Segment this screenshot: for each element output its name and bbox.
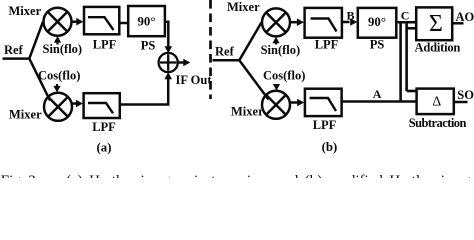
arrow Sin stem (a) <box>56 42 58 45</box>
svg-text:Cos(flo): Cos(flo) <box>38 68 80 82</box>
wire F3 to 90 box node B <box>343 21 350 24</box>
wire node A from F4 to delta <box>342 100 416 103</box>
arrowhead into summer top (a) <box>165 46 173 53</box>
wire Ref to bottom mixer (a) <box>29 59 50 101</box>
wire M4 to LPF (b) <box>291 101 298 104</box>
svg-text:A: A <box>373 87 382 101</box>
arrowhead M4 to LPF (b) <box>297 99 304 107</box>
svg-text:LPF: LPF <box>313 118 337 132</box>
arrow Cos stem (b) <box>275 84 277 87</box>
arrowhead into 90 box (b) <box>350 18 357 26</box>
svg-text:90°: 90° <box>368 15 386 29</box>
svg-text:AO: AO <box>456 10 474 24</box>
svg-text:Sin(flo): Sin(flo) <box>261 43 301 57</box>
svg-text:(a): (a) <box>97 140 112 154</box>
dashed divider <box>209 0 212 99</box>
wire SO output <box>455 101 468 104</box>
90 deg phase shifter box PS2 (b) <box>358 8 397 38</box>
mixer M4 (b bottom) <box>262 91 290 119</box>
arrowhead Cos (b) <box>273 84 280 91</box>
svg-text:90°: 90° <box>138 15 156 29</box>
svg-text:LPF: LPF <box>315 38 339 52</box>
wire Ref underline (b) <box>213 59 240 62</box>
svg-text:Cos(flo): Cos(flo) <box>263 69 305 83</box>
svg-text:Σ: Σ <box>429 11 443 37</box>
sigma addition box <box>416 7 452 40</box>
wire F1 to 90 box (a) <box>120 22 128 25</box>
arrowhead Cos (a) <box>53 86 60 93</box>
svg-text:Δ: Δ <box>432 94 441 109</box>
svg-text:Mixer: Mixer <box>227 0 260 14</box>
svg-text:Fig. 3: Fig. 3 <box>1 173 36 178</box>
LPF symbol in F1 <box>88 17 114 30</box>
mixer M3 (b top) <box>262 8 290 36</box>
arrow Sin stem (b) <box>275 42 277 45</box>
svg-text:Sin(flo): Sin(flo) <box>43 42 83 56</box>
wire M2 to LPF (a) <box>72 102 77 105</box>
svg-text:B: B <box>347 8 355 22</box>
mixer M1 (a top) <box>44 8 72 36</box>
svg-text:(b): (b) <box>322 140 338 154</box>
LPF box F4 (b bottom) <box>305 89 342 116</box>
wire M3 to LPF (b) <box>291 21 298 24</box>
90 deg phase shifter box PS1 (a) <box>128 6 165 36</box>
wire Ref to top mixer (a) <box>29 22 43 59</box>
arrowhead Sin (a) <box>54 36 61 43</box>
svg-text:Mixer: Mixer <box>231 105 264 119</box>
svg-text:(a) Hartley image-reject recei: (a) Hartley image-reject receiver and (b… <box>66 173 474 178</box>
LPF box F3 (b top) <box>305 8 342 38</box>
svg-text:Mixer: Mixer <box>9 4 42 18</box>
delta subtraction box <box>417 89 454 115</box>
svg-text:IF Out: IF Out <box>176 73 213 87</box>
arrow Cos stem (a) <box>56 84 58 87</box>
LPF symbol in F3 <box>311 19 337 32</box>
summer S1 (a) <box>159 53 178 72</box>
LPF symbol in F2 <box>88 103 113 113</box>
arrowhead M1 to LPF (a) <box>76 18 83 26</box>
svg-text:Ref: Ref <box>215 44 235 58</box>
svg-text:C: C <box>401 8 410 22</box>
wire AO output <box>452 22 463 25</box>
wire Ref underline (a) <box>3 57 30 60</box>
wire M1 to LPF (a) <box>72 20 78 23</box>
wire vertical branch C down <box>399 22 402 101</box>
wire vertical branch A up <box>405 23 408 91</box>
arrowhead IF Out (a) <box>183 59 190 67</box>
wire summer output (a) <box>178 61 184 64</box>
svg-text:Mixer: Mixer <box>9 108 42 122</box>
arrowhead M3 to LPF (b) <box>297 18 304 26</box>
wire Ref to bottom mixer (b) <box>239 60 268 99</box>
svg-text:PS: PS <box>370 38 385 52</box>
wire elbow into sigma <box>407 27 416 30</box>
wire elbow into delta <box>407 90 417 93</box>
arrowhead into summer bottom (a) <box>164 72 172 79</box>
svg-text:SO: SO <box>457 88 474 102</box>
arrowhead M2 to LPF (a) <box>76 100 83 108</box>
svg-text:LPF: LPF <box>92 120 116 134</box>
svg-text:PS: PS <box>141 39 156 53</box>
svg-text:Subtraction: Subtraction <box>409 116 467 130</box>
LPF box F1 (a top) <box>84 7 119 34</box>
svg-text:LPF: LPF <box>93 38 117 52</box>
arrowhead Sin (b) <box>272 37 279 44</box>
wire Ref to top mixer (b) <box>239 22 261 60</box>
mixer M2 (a bottom) <box>44 93 72 121</box>
wire F2 to summer (a) <box>120 79 168 105</box>
svg-text:Addition: Addition <box>415 41 461 55</box>
wire PS2 to sigma node C <box>398 21 416 24</box>
LPF box F2 (a bottom) <box>84 93 120 118</box>
LPF symbol in F4 <box>310 98 337 111</box>
svg-text:Ref: Ref <box>4 43 24 57</box>
wire PS1 to summer (a) <box>165 22 168 47</box>
